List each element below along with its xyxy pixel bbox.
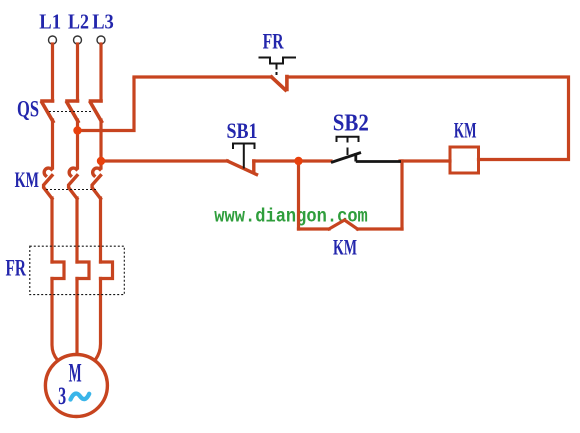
wire SB2 black segment end to coil bbox=[400, 159, 450, 162]
wire QS pole1 to KM contact bbox=[51, 120, 54, 168]
wire SB2 to branch merge (black) bbox=[356, 160, 401, 163]
wire QS pole3 to KM contact bbox=[99, 120, 102, 168]
wire KM pole1 to FR heater bbox=[50, 198, 53, 262]
branch wire bottom right bbox=[358, 227, 403, 230]
wire control feed from L2 node to top rail bbox=[78, 79, 135, 131]
svg-text:SB1: SB1 bbox=[227, 118, 258, 143]
wire L3 node to SB1 bbox=[101, 159, 228, 162]
branch wire node A down bbox=[297, 161, 300, 229]
branch wire up to main line bbox=[400, 161, 403, 229]
wire FR heater pole1 to motor bbox=[52, 279, 58, 361]
svg-text:SB2: SB2 bbox=[333, 111, 369, 137]
node junction L2 control feed bbox=[73, 126, 81, 134]
contact KM auxiliary NO chevron bbox=[329, 220, 358, 229]
pushbutton SB2 actuator bbox=[337, 137, 359, 155]
wire FR heater pole2 to motor bbox=[75, 279, 78, 356]
svg-text:KM: KM bbox=[454, 118, 477, 143]
wire FR contact to right corner and down to coil bbox=[287, 77, 569, 160]
coil KM box bbox=[450, 147, 479, 173]
relay FR stem bbox=[276, 64, 278, 76]
svg-text:L1: L1 bbox=[39, 10, 61, 34]
motor M circle bbox=[45, 355, 107, 417]
wire FR heater pole3 to motor bbox=[96, 279, 101, 360]
terminal L3 bbox=[97, 36, 105, 44]
svg-text:3: 3 bbox=[58, 383, 66, 410]
contact KM linkage dashed bbox=[46, 189, 96, 191]
node A junction bbox=[294, 157, 302, 165]
switch QS pole 3 bbox=[91, 101, 102, 122]
pushbutton SB1 actuator bbox=[233, 144, 255, 169]
motor phase tilde bbox=[71, 394, 90, 400]
svg-text:L3: L3 bbox=[92, 10, 114, 34]
wire L1 to QS bbox=[51, 44, 54, 101]
svg-text:KM: KM bbox=[15, 167, 39, 192]
switch QS linkage dashed bbox=[49, 111, 92, 113]
wire L3 to QS bbox=[99, 44, 102, 101]
svg-text:KM: KM bbox=[333, 235, 357, 260]
wire top rail to FR contact bbox=[134, 75, 272, 78]
heater FR pole 1 bbox=[52, 262, 64, 279]
branch wire bottom left bbox=[299, 227, 330, 230]
wire KM pole2 to FR heater bbox=[75, 198, 78, 262]
wire QS pole2 to KM contact bbox=[76, 120, 79, 168]
switch QS pole 1 bbox=[42, 101, 53, 122]
heater FR pole 3 bbox=[101, 262, 113, 279]
terminal L2 bbox=[74, 36, 82, 44]
svg-text:FR: FR bbox=[6, 256, 27, 281]
terminal L1 bbox=[49, 36, 57, 44]
wire SB1 to node A bbox=[254, 159, 299, 162]
switch QS pole 2 bbox=[67, 101, 78, 122]
relay FR release bracket (top) bbox=[259, 58, 297, 64]
pushbutton SB1 blade bbox=[228, 161, 257, 175]
svg-text:QS: QS bbox=[17, 97, 39, 122]
contact KM main pole 3 bbox=[92, 168, 100, 198]
heater FR pole 2 bbox=[77, 262, 89, 279]
node junction L3 control feed bbox=[97, 157, 105, 165]
contact KM main pole 2 bbox=[69, 168, 77, 198]
FR dashed box bbox=[30, 246, 125, 294]
svg-text:M: M bbox=[69, 359, 82, 388]
pushbutton SB2 blade bbox=[331, 153, 361, 163]
svg-text:FR: FR bbox=[263, 29, 285, 54]
pushbutton SB2 fixed contact tick bbox=[354, 153, 357, 162]
wire node A to SB2 bbox=[299, 159, 332, 162]
svg-text:L2: L2 bbox=[68, 10, 89, 34]
contact KM main pole 1 bbox=[44, 168, 52, 198]
wire L2 to QS bbox=[76, 44, 79, 101]
svg-text:www.diangon.com: www.diangon.com bbox=[214, 206, 367, 228]
wire KM pole3 to FR heater bbox=[99, 198, 102, 262]
contact FR NC blade (top) bbox=[272, 77, 287, 91]
